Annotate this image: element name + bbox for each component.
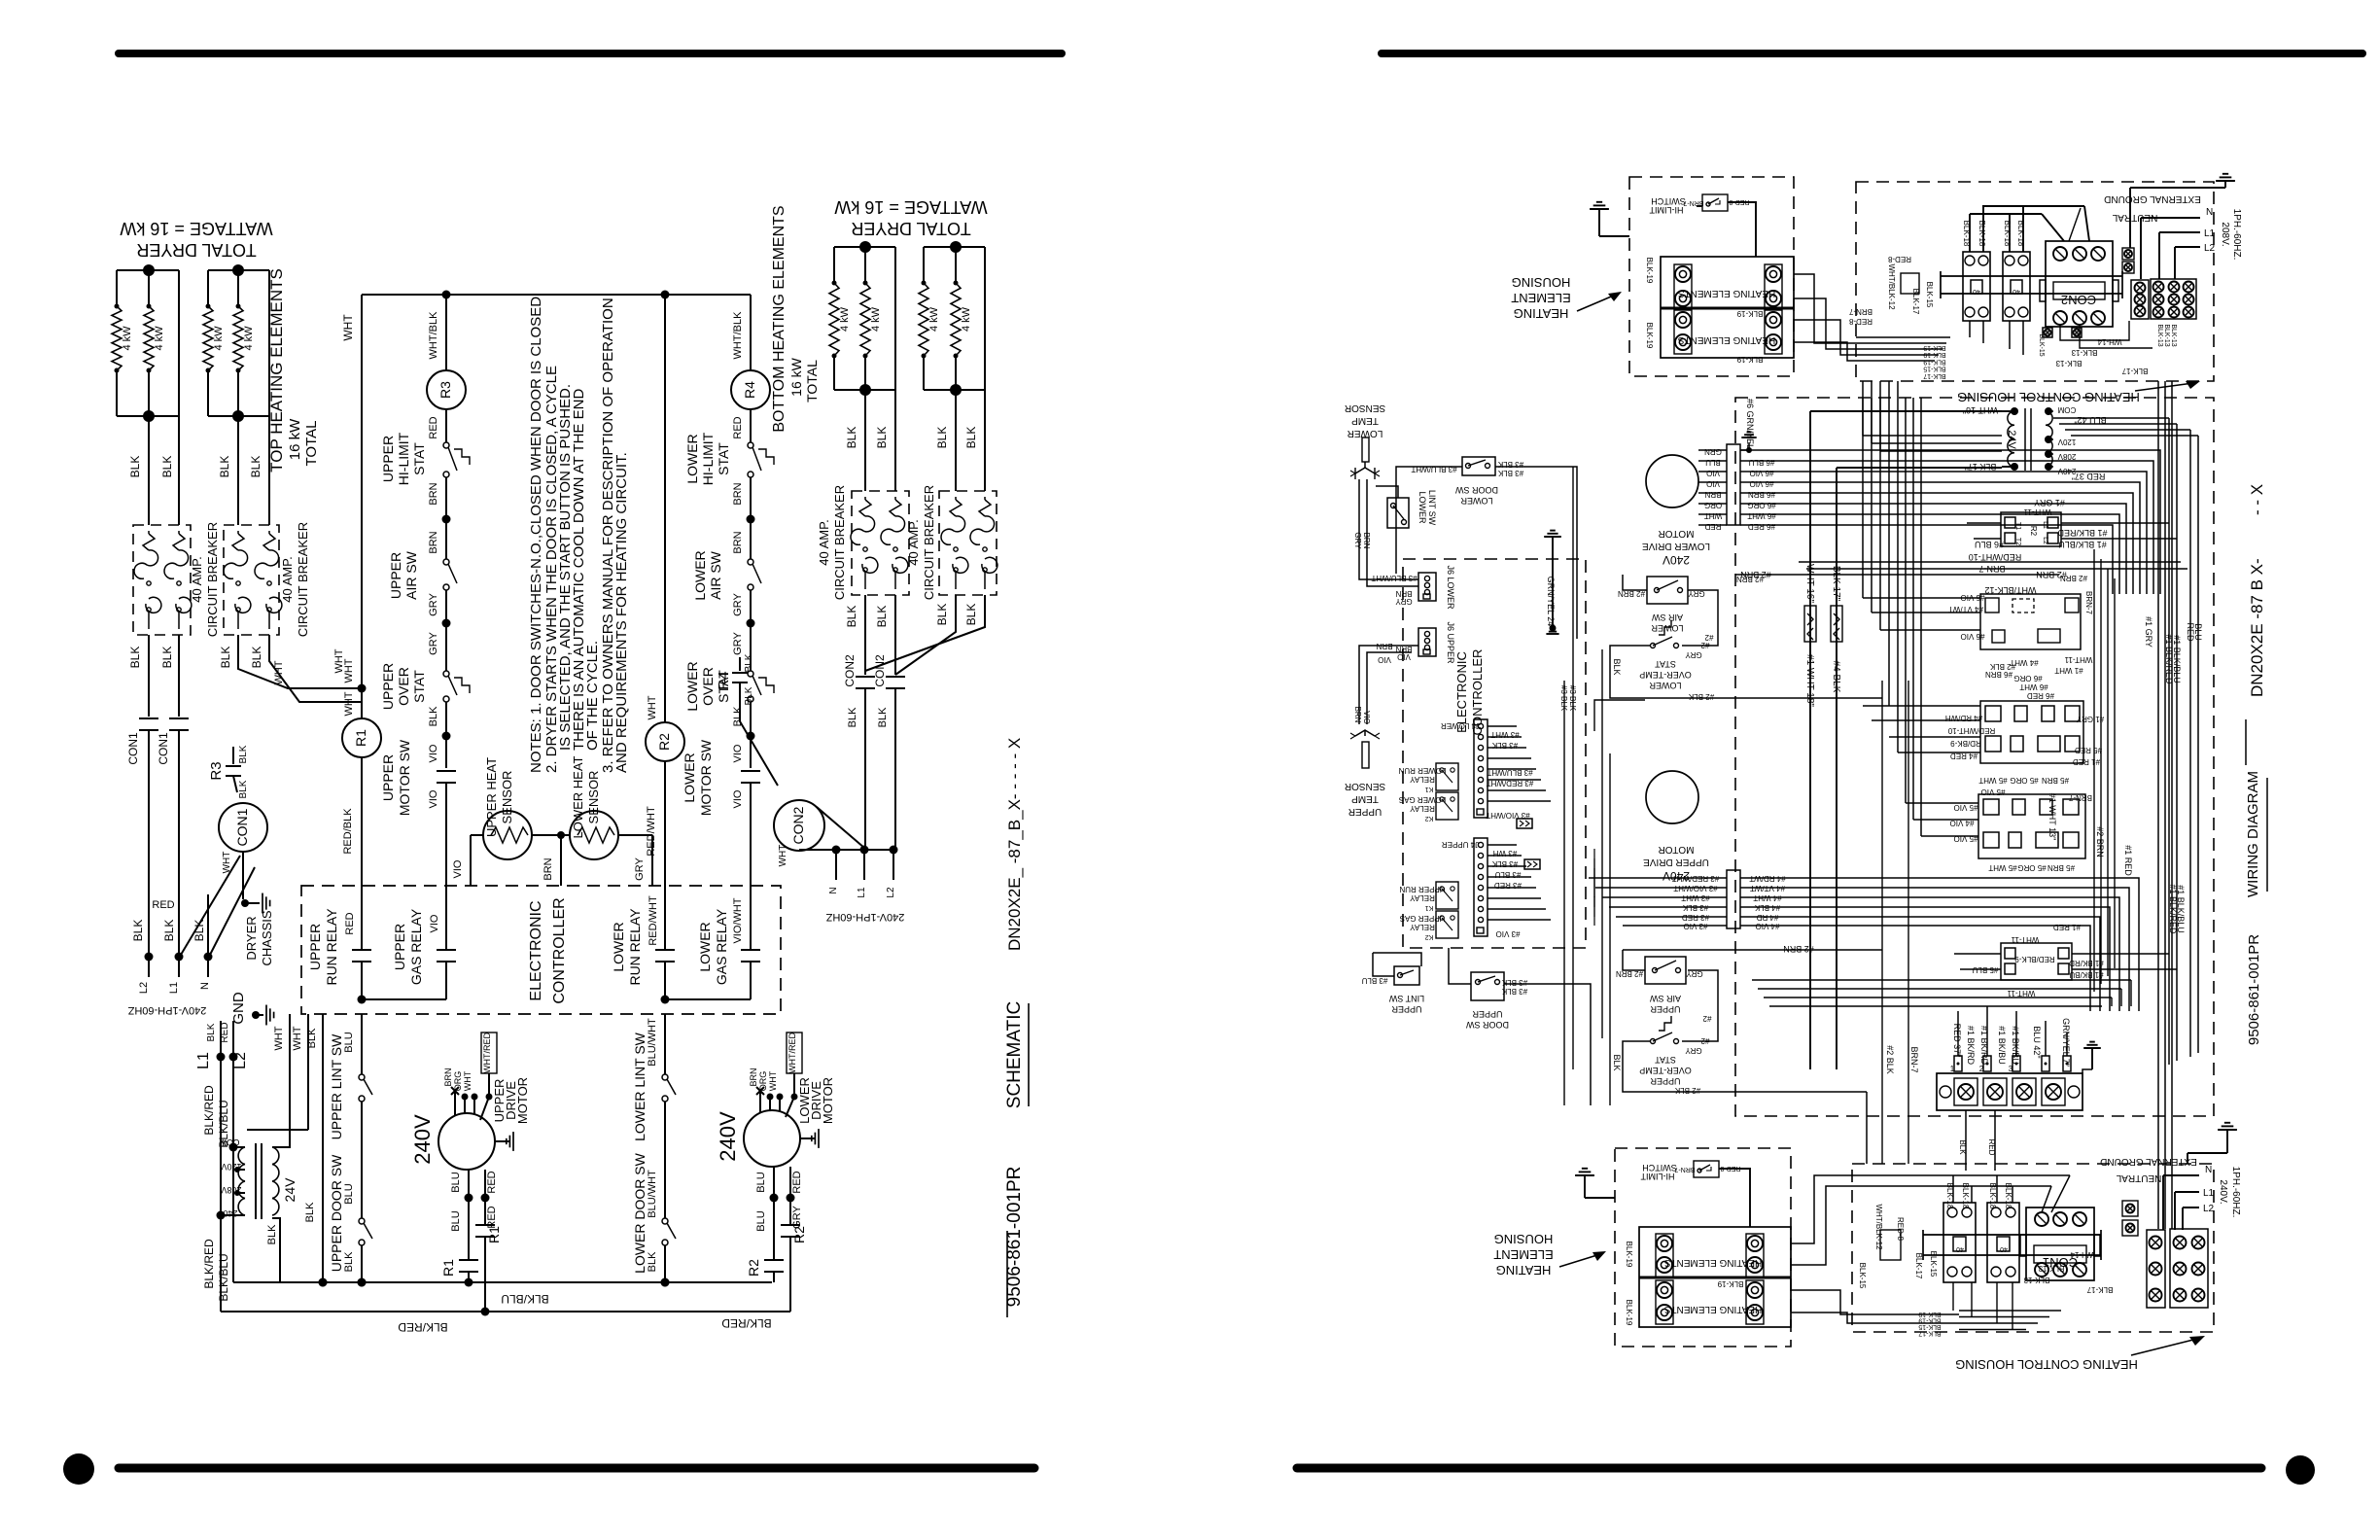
svg-text:4 kW: 4 kW [870,306,882,332]
svg-text:GRN/YEL 7": GRN/YEL 7" [2061,1018,2071,1067]
svg-text:WHT/BLK-12: WHT/BLK-12 [1984,585,2036,595]
svg-text:240V: 240V [1662,553,1690,567]
svg-text:VIO: VIO [428,789,439,808]
svg-text:RED/BLK-9: RED/BLK-9 [2014,955,2055,963]
svg-text:L1: L1 [195,1052,212,1069]
svg-text:RED: RED [1987,1139,1996,1156]
svg-text:SENSOR: SENSOR [1345,781,1385,791]
svg-text:208V.: 208V. [2220,222,2230,246]
svg-text:NEUTRAL: NEUTRAL [2116,1172,2161,1183]
svg-text:BLK: BLK [1958,1139,1967,1155]
svg-text:BLK/BLU: BLK/BLU [501,1292,548,1306]
svg-text:BLU 42": BLU 42" [2032,1026,2042,1058]
svg-text:WHT: WHT [768,1070,778,1091]
svg-text:#6 GRN/YEL: #6 GRN/YEL [1745,399,1755,449]
svg-text:#3 BLK: #3 BLK [1501,978,1527,987]
svg-text:WH-14: WH-14 [2070,1250,2094,1259]
svg-text:BLK: BLK [744,686,754,705]
svg-text:WHT-11: WHT-11 [2007,989,2035,997]
svg-text:#3 RED: #3 RED [1682,913,1709,922]
svg-text:UPPER: UPPER [1348,806,1382,817]
svg-text:MOTOR: MOTOR [1658,528,1694,539]
svg-text:#1 WHT: #1 WHT [2054,666,2082,675]
svg-text:BLK: BLK [238,780,249,798]
svg-text:#6 RED: #6 RED [2027,691,2054,700]
svg-text:MOTOR: MOTOR [821,1077,835,1124]
svg-text:BRN-7: BRN-7 [2084,591,2093,615]
svg-text:MOTOR: MOTOR [515,1077,530,1124]
svg-text:VIO: VIO [732,744,744,762]
svg-text:J4 UPPER: J4 UPPER [1442,840,1479,849]
svg-text:UPPER: UPPER [380,436,396,482]
svg-text:SENSOR: SENSOR [1345,402,1385,413]
svg-text:#5 WHT: #5 WHT [1978,776,2007,785]
svg-text:WATTAGE = 16 kW: WATTAGE = 16 kW [834,197,987,217]
svg-text:RED: RED [220,1022,230,1042]
svg-text:LOWER: LOWER [1347,428,1383,438]
svg-text:LOWER: LOWER [1649,681,1682,690]
svg-text:#5 BRN: #5 BRN [2047,863,2075,872]
svg-text:BLK-17: BLK-17 [1911,289,1920,315]
svg-text:RD/BK-9: RD/BK-9 [1950,739,1981,748]
svg-text:BLK: BLK [845,427,858,449]
svg-text:UPPER: UPPER [1650,1076,1681,1086]
svg-text:R2: R2 [656,733,672,751]
svg-text:STAT: STAT [1655,1055,1676,1065]
svg-text:RELAY: RELAY [1410,923,1435,931]
svg-text:BLU: BLU [2193,623,2203,641]
svg-text:GRY: GRY [428,593,439,616]
svg-text:GRY: GRY [732,593,744,616]
svg-text:BLK-19: BLK-19 [1645,323,1654,349]
svg-text:CIRCUIT BREAKER: CIRCUIT BREAKER [922,485,936,600]
svg-text:UPPER: UPPER [1391,1004,1422,1014]
svg-text:#2 BRN: #2 BRN [1783,944,1814,954]
svg-text:DRYER: DRYER [244,916,259,960]
svg-text:BRN: BRN [428,482,439,505]
svg-text:BLK: BLK [249,456,262,478]
svg-text:LOWER DRIVE: LOWER DRIVE [1642,541,1710,551]
svg-text:ORG: ORG [453,1071,463,1092]
svg-text:R1: R1 [440,1259,456,1277]
svg-text:K1: K1 [1425,786,1434,792]
svg-text:GAS RELAY: GAS RELAY [408,908,424,985]
svg-text:4 kW: 4 kW [122,326,133,351]
svg-text:#1 BK/RD: #1 BK/RD [1979,1026,1989,1066]
svg-text:HI-LIMIT: HI-LIMIT [1640,1172,1675,1181]
svg-text:40: 40 [2000,1245,2008,1252]
svg-text:RED: RED [428,416,439,438]
svg-text:#3 BLK: #3 BLK [1497,469,1523,477]
svg-text:BLK: BLK [964,604,978,626]
svg-text:BLK-19: BLK-19 [1923,358,1945,365]
svg-text:K2: K2 [1425,933,1434,940]
svg-text:RED/WHT-10: RED/WHT-10 [1969,552,2022,562]
svg-text:L1: L1 [2204,228,2216,239]
svg-text:HOUSING: HOUSING [1494,1232,1554,1246]
svg-text:40 AMP.: 40 AMP. [190,556,204,602]
svg-text:VIO/WHT: VIO/WHT [732,897,744,943]
svg-text:LOWER: LOWER [1651,623,1684,633]
svg-text:OVER-TEMP: OVER-TEMP [1639,1066,1692,1075]
svg-text:#1 GRY: #1 GRY [2076,715,2104,723]
svg-text:OVER: OVER [396,667,411,706]
svg-text:BLK-17: BLK-17 [1914,1253,1923,1279]
svg-text:BLK: BLK [847,707,858,727]
svg-text:N: N [2206,207,2213,218]
svg-text:BRN-7: BRN-7 [2068,793,2092,802]
svg-text:#1 BLK/BLU: #1 BLK/BLU [2058,540,2107,549]
svg-text:#2 BLK: #2 BLK [1989,662,2015,671]
svg-text:240V: 240V [716,1111,740,1162]
svg-text:N: N [828,887,839,893]
svg-text:MOTOR SW: MOTOR SW [698,739,714,816]
svg-text:BLK-13: BLK-13 [2170,324,2177,346]
svg-text:#2 BLK: #2 BLK [1674,1086,1700,1095]
svg-text:4 kW: 4 kW [213,326,225,351]
svg-text:UPPER: UPPER [388,552,403,599]
svg-text:BLU: BLU [755,1210,767,1231]
svg-text:#1 BK/BU: #1 BK/BU [1997,1026,2007,1065]
svg-text:BLK-15: BLK-15 [1923,366,1945,372]
svg-text:#3 BLK: #3 BLK [1682,903,1708,912]
svg-text:ELEMENT: ELEMENT [1493,1247,1553,1262]
svg-text:L1: L1 [168,982,180,994]
svg-text:#6 WHT: #6 WHT [2019,682,2047,691]
svg-text:#2 BLK: #2 BLK [1688,692,1714,701]
svg-text:RED: RED [486,1206,498,1228]
svg-text:BOTTOM HEATING ELEMENTS: BOTTOM HEATING ELEMENTS [771,205,787,432]
svg-text:BLK: BLK [304,1202,316,1222]
svg-text:WHT-11: WHT-11 [2011,935,2039,944]
svg-text:WH-14: WH-14 [2097,337,2121,346]
svg-text:RED/WHT-10: RED/WHT-10 [1947,726,1995,735]
svg-text:#1 BK/BU: #1 BK/BU [2069,970,2103,979]
svg-text:BRN: BRN [1704,490,1721,499]
svg-text:NEUTRAL: NEUTRAL [2112,212,2157,223]
svg-text:CON1: CON1 [234,808,250,846]
svg-text:VIO: VIO [732,789,744,808]
svg-text:TEMP: TEMP [1351,793,1379,804]
svg-text:VIO: VIO [429,914,440,932]
svg-text:WHT: WHT [341,314,355,341]
svg-text:BLK-15: BLK-15 [1925,282,1934,308]
svg-text:BLK: BLK [1612,658,1622,675]
svg-text:BLK: BLK [219,647,232,669]
svg-text:K2: K2 [1425,815,1434,822]
svg-text:L2: L2 [886,887,896,898]
svg-text:ELECTRONIC: ELECTRONIC [528,900,544,1000]
svg-text:DOOR SW: DOOR SW [1465,1020,1509,1030]
svg-text:HEATING ELEMENTS: HEATING ELEMENTS [1677,334,1775,345]
svg-text:#5 VIO: #5 VIO [1981,787,2006,796]
svg-text:BLK: BLK [218,456,231,478]
svg-text:BLK-17: BLK-17 [1923,372,1945,379]
svg-text:#1 RED: #1 RED [2053,923,2081,931]
svg-text:DN20X2E -87 B X-: DN20X2E -87 B X- [2248,558,2266,697]
svg-text:HEATING: HEATING [1496,1263,1552,1277]
svg-text:UPPER RUN: UPPER RUN [1399,885,1445,893]
svg-text:ELEMENT: ELEMENT [1511,291,1570,305]
svg-text:#6 RED: #6 RED [1748,522,1775,531]
svg-text:AIR SW: AIR SW [403,550,419,600]
svg-text:BLU: BLU [450,1210,462,1231]
svg-text:#5 RED: #5 RED [2075,746,2102,754]
svg-text:240V-1PH-60HZ: 240V-1PH-60HZ [825,911,904,923]
svg-text:BLK-19: BLK-19 [1918,1317,1941,1324]
svg-text:BLK-19: BLK-19 [1736,355,1763,364]
svg-text:WHT 16": WHT 16" [1804,564,1815,603]
svg-text:SWITCH: SWITCH [1642,1163,1677,1172]
svg-text:240V-1PH-60HZ: 240V-1PH-60HZ [127,1004,206,1016]
svg-text:L2: L2 [2203,1204,2215,1214]
svg-text:UPPER: UPPER [1650,1004,1681,1014]
svg-text:#1 WHT 18": #1 WHT 18" [1804,654,1815,707]
svg-text:BLK-19: BLK-19 [1923,344,1945,351]
svg-text:MOTOR: MOTOR [1658,844,1694,855]
svg-text:BLU/WHT: BLU/WHT [647,1018,658,1067]
svg-text:BLK: BLK [875,606,889,628]
svg-text:4 kW: 4 kW [961,306,972,332]
svg-text:CONTROLLER: CONTROLLER [551,897,568,1003]
svg-text:WHT: WHT [463,1070,472,1091]
svg-text:WHT: WHT [647,695,658,719]
svg-text:L2: L2 [2042,537,2048,544]
svg-text:LOWER HEAT: LOWER HEAT [571,755,585,838]
svg-text:J6 LOWER: J6 LOWER [1446,565,1455,610]
svg-text:GRN/YEL 24": GRN/YEL 24" [1546,577,1556,630]
svg-text:GRY: GRY [634,857,646,881]
svg-text:BLK-19: BLK-19 [1717,1279,1743,1288]
svg-text:ORG: ORG [1704,501,1722,509]
svg-text:#6 ORG: #6 ORG [1747,501,1775,509]
svg-text:DOOR SW: DOOR SW [1454,485,1498,495]
svg-text:WHT/RED: WHT/RED [787,1032,797,1073]
svg-text:STAT: STAT [716,442,731,475]
svg-text:OVER-TEMP: OVER-TEMP [1639,670,1692,680]
svg-text:#2: #2 [1702,1014,1711,1023]
svg-text:HEATING ELEMENTS: HEATING ELEMENTS [1663,1257,1762,1268]
svg-text:L1: L1 [857,887,867,898]
svg-text:BLK/RED: BLK/RED [202,1085,216,1136]
svg-text:UPPER HEAT: UPPER HEAT [484,757,499,837]
svg-text:#1 BK/BU: #1 BK/BU [2011,1026,2020,1065]
svg-text:VIO: VIO [1378,655,1391,664]
svg-text:WHT: WHT [292,1026,303,1050]
svg-text:EXTERNAL GROUND: EXTERNAL GROUND [2100,1156,2197,1167]
svg-text:UPPER: UPPER [307,924,323,970]
svg-text:BLK: BLK [1612,1054,1622,1070]
svg-text:VIO: VIO [428,744,439,762]
svg-text:24V: 24V [2006,430,2017,449]
svg-text:VIO: VIO [452,859,464,878]
svg-text:40 AMP.: 40 AMP. [280,556,295,602]
svg-text:#2: #2 [1700,1036,1709,1045]
svg-text:GRY: GRY [1685,1046,1702,1055]
svg-text:LOWER: LOWER [611,922,626,971]
svg-text:RED: RED [791,1171,803,1193]
svg-text:LOWER: LOWER [697,922,713,971]
svg-text:CIRCUIT BREAKER: CIRCUIT BREAKER [832,485,847,600]
svg-text:TOTAL DRYER: TOTAL DRYER [136,240,256,260]
svg-text:#3 WHT: #3 WHT [1490,730,1519,739]
svg-text:BRN-7: BRN-7 [1683,199,1703,206]
svg-text:RED/BLK: RED/BLK [342,808,354,855]
svg-text:BRN: BRN [542,857,554,880]
svg-text:9506-861-001PR: 9506-861-001PR [2246,934,2262,1045]
svg-text:BLK/BLU: BLK/BLU [217,1253,230,1301]
svg-text:#1 BK/RD: #1 BK/RD [1966,1026,1976,1066]
svg-text:RED/WHT: RED/WHT [647,895,659,946]
svg-text:BLU: BLU [343,1032,355,1052]
svg-text:#1 BLK/BLU: #1 BLK/BLU [2172,635,2182,683]
svg-text:BLK: BLK [306,1028,318,1048]
svg-text:BLK/RED: BLK/RED [202,1239,216,1289]
svg-text:LOWER GAS: LOWER GAS [1399,795,1446,804]
svg-text:GRY: GRY [1685,650,1702,659]
svg-text:AND REQUIREMENTS FOR HEATING C: AND REQUIREMENTS FOR HEATING CIRCUIT. [613,452,630,773]
svg-text:16 kW: 16 kW [788,357,804,396]
svg-text:RED-8: RED-8 [1848,317,1872,326]
svg-text:R4: R4 [742,381,757,399]
svg-text:LOWER: LOWER [684,661,700,711]
svg-text:RELAY: RELAY [1410,893,1435,902]
svg-text:OVER: OVER [700,667,716,706]
svg-text:40 AMP.: 40 AMP. [906,519,921,565]
svg-text:VIO: VIO [1706,469,1720,477]
svg-text:BLK: BLK [935,604,949,626]
svg-text:HEATING CONTROL HOUSING: HEATING CONTROL HOUSING [1955,1357,2138,1372]
svg-text:BLU: BLU [1705,458,1721,467]
svg-text:BLK-13: BLK-13 [2023,1276,2049,1284]
svg-text:SENSOR: SENSOR [586,771,601,824]
svg-text:BLK: BLK [206,1023,217,1041]
svg-text:BRN: BRN [1395,645,1412,653]
svg-text:BLK: BLK [160,647,174,669]
svg-text:#3 BLU: #3 BLU [1494,870,1521,879]
svg-text:LOWER: LOWER [1417,491,1427,524]
svg-text:HEATING: HEATING [1514,306,1569,321]
svg-text:BRN-7: BRN-7 [1848,307,1872,316]
svg-text:LOWER: LOWER [684,434,700,483]
svg-text:BLK-13: BLK-13 [2055,359,2082,367]
svg-text:BLK: BLK [128,647,142,669]
svg-text:240V: 240V [217,1208,237,1218]
svg-text:UPPER GAS: UPPER GAS [1400,914,1446,923]
svg-text:#1 RED: #1 RED [2123,845,2133,876]
svg-text:BLK-15: BLK-15 [1858,1263,1867,1289]
svg-text:WHT/BLK: WHT/BLK [428,311,439,360]
svg-text:#6 VIO: #6 VIO [1750,479,1774,488]
svg-text:RED-8: RED-8 [1887,255,1911,263]
svg-text:CON1: CON1 [126,732,140,765]
svg-text:BRN: BRN [1353,707,1362,723]
svg-text:- - X: - - X [2248,484,2266,515]
svg-text:#6 BRN: #6 BRN [1985,670,2012,679]
svg-text:BRN: BRN [732,482,744,505]
svg-text:R4: R4 [716,671,732,689]
svg-text:#2 BRN: #2 BRN [2095,826,2105,857]
svg-text:RED 37": RED 37" [1952,1024,1962,1058]
svg-text:BLK-19: BLK-19 [1625,1242,1633,1268]
svg-text:T2: T2 [2014,538,2021,545]
svg-text:T1: T1 [2014,522,2021,530]
svg-text:40 AMP.: 40 AMP. [817,519,831,565]
svg-text:BRN: BRN [1362,533,1371,549]
svg-text:#6 BLU: #6 BLU [1748,458,1774,467]
svg-text:BLK-15: BLK-15 [1929,1251,1938,1277]
svg-text:4 kW: 4 kW [839,306,851,332]
svg-text:BLK: BLK [128,456,142,478]
svg-text:#3 VIO/WHT: #3 VIO/WHT [1673,884,1717,892]
svg-text:#1 BLK/BLU: #1 BLK/BLU [2176,885,2186,933]
svg-text:WHT-11: WHT-11 [2023,507,2051,516]
svg-text:AIR SW: AIR SW [708,550,723,600]
svg-text:#5 WHT: #5 WHT [1988,863,2016,872]
svg-text:TOP HEATING ELEMENTS: TOP HEATING ELEMENTS [267,268,286,472]
svg-text:#1 BK/RD: #1 BK/RD [2069,959,2104,967]
svg-text:4 kW: 4 kW [243,326,255,351]
svg-text:L1: L1 [2203,1188,2215,1199]
svg-text:BLU: BLU [755,1172,767,1192]
svg-text:BLK: BLK [744,653,754,672]
svg-text:UPPER: UPPER [1472,1009,1503,1019]
svg-text:RED: RED [152,899,174,911]
svg-text:RUN RELAY: RUN RELAY [627,908,643,986]
svg-text:#3 BLK: #3 BLK [1491,741,1518,750]
svg-text:BLU: BLU [343,1183,355,1204]
svg-text:CON2: CON2 [843,654,857,687]
svg-text:ELECTRONIC: ELECTRONIC [1454,651,1469,733]
svg-text:#2 BLK: #2 BLK [1885,1045,1895,1074]
svg-text:#3 BLK: #3 BLK [1501,987,1527,996]
svg-text:WHT: WHT [222,852,232,874]
svg-text:R2: R2 [791,1226,807,1243]
svg-text:GRY: GRY [732,632,744,655]
svg-text:BRN: BRN [1376,642,1392,650]
svg-text:BLU: BLU [450,1172,462,1192]
svg-text:CON2: CON2 [873,654,887,687]
svg-text:BLK/RED: BLK/RED [721,1316,772,1330]
svg-text:RELAY: RELAY [1410,804,1435,813]
svg-text:BRN: BRN [1395,589,1412,598]
svg-text:4 kW: 4 kW [154,326,165,351]
svg-text:LOWER RUN: LOWER RUN [1398,766,1446,775]
svg-text:WHT-11: WHT-11 [2064,655,2092,664]
svg-text:BLK: BLK [428,706,439,726]
svg-text:RED: RED [486,1171,498,1193]
svg-text:R3: R3 [208,761,225,780]
svg-text:DN20X2E_ -87_B_X- - - - -: DN20X2E_ -87_B_X- - - - - X [1005,738,1024,951]
svg-text:#3 BLK: #3 BLK [1568,685,1577,712]
svg-text:BRN: BRN [428,531,439,553]
svg-text:UPPER LINT SW: UPPER LINT SW [329,1033,344,1139]
svg-text:24V: 24V [282,1177,297,1203]
svg-text:STAT: STAT [1655,659,1676,669]
svg-text:BLK-13: BLK-13 [2038,1264,2064,1273]
svg-text:N: N [2205,1165,2212,1175]
svg-text:WATTAGE = 16 kW: WATTAGE = 16 kW [120,219,272,238]
svg-text:4 kW: 4 kW [928,306,940,332]
svg-text:LOWER: LOWER [682,752,697,802]
svg-text:LOWER: LOWER [692,550,708,600]
svg-text:SENSOR: SENSOR [500,771,514,824]
svg-text:BLK-15: BLK-15 [1918,1323,1941,1330]
svg-text:#3 BLU: #3 BLU [1361,976,1387,985]
svg-text:LOWER DOOR SW: LOWER DOOR SW [632,1152,647,1273]
svg-text:40: 40 [1973,288,1980,295]
svg-text:240V.: 240V. [2218,1179,2228,1204]
